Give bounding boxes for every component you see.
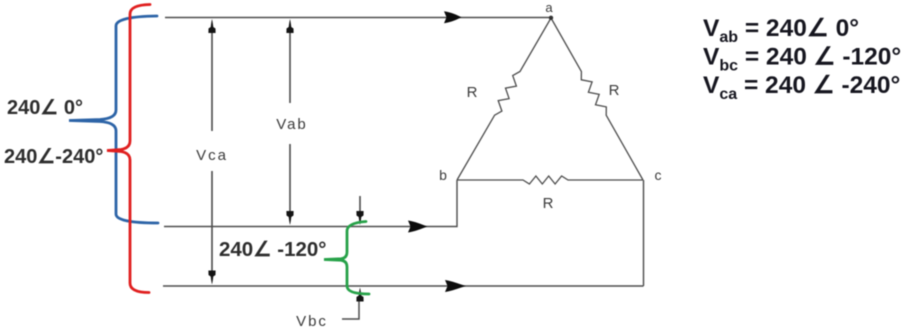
brace (blue) spanning phase a to phase b, pointing at 240&ang;0 label	[69, 16, 158, 223]
svg-text:R: R	[467, 84, 478, 101]
svg-text:R: R	[609, 82, 620, 99]
svg-text:a: a	[545, 0, 553, 15]
svg-text:Vab = 240∠ 0°: Vab = 240∠ 0°	[703, 15, 859, 46]
dimension arrow Vab (x=290, from phase a line down to phase b line)	[289, 31, 291, 214]
svg-text:R: R	[543, 195, 554, 212]
brace (green) spanning phase b to phase c, pointing at 240&ang;-120 label	[324, 222, 369, 295]
wire: phase b middle horizontal line, turns up to node b	[164, 180, 457, 227]
node a (apex junction dot)	[549, 16, 553, 20]
svg-text:240∠ 0°: 240∠ 0°	[7, 97, 83, 119]
svg-text:Vca = 240 ∠ -240°: Vca = 240 ∠ -240°	[703, 72, 900, 103]
svg-text:c: c	[655, 167, 662, 183]
wire: from node c down to phase c line	[643, 180, 645, 286]
wire: phase c bottom horizontal line	[163, 285, 644, 287]
dimension arrow Vca (x=212, from phase a line down to phase c line)	[211, 31, 213, 274]
resistor R (left leg a-b)	[457, 18, 551, 180]
svg-text:Vbc = 240 ∠ -120°: Vbc = 240 ∠ -120°	[703, 44, 901, 75]
arrowhead on phase c wire	[445, 280, 466, 292]
brace (red) spanning phase a to phase c, pointing at 240&ang;-240 label	[107, 5, 150, 293]
dimension arrow Vbc lower (x=360, pointing up at phase c line)	[342, 301, 359, 319]
arrowhead on phase a wire	[444, 11, 462, 23]
svg-text:240∠-240°: 240∠-240°	[4, 146, 103, 168]
svg-text:b: b	[439, 167, 447, 183]
arrowhead on phase b wire	[408, 221, 428, 233]
dimension arrow Vbc upper (x=360, pointing down at phase b line)	[359, 196, 361, 212]
resistor R (bottom leg b-c)	[457, 176, 643, 184]
svg-text:Vbc: Vbc	[296, 313, 328, 330]
resistor R (right leg a-c)	[551, 18, 643, 180]
svg-text:Vca: Vca	[196, 147, 228, 164]
svg-text:240∠ -120°: 240∠ -120°	[219, 238, 327, 261]
wire: phase a top horizontal line	[165, 17, 551, 19]
svg-text:Vab: Vab	[276, 116, 308, 133]
